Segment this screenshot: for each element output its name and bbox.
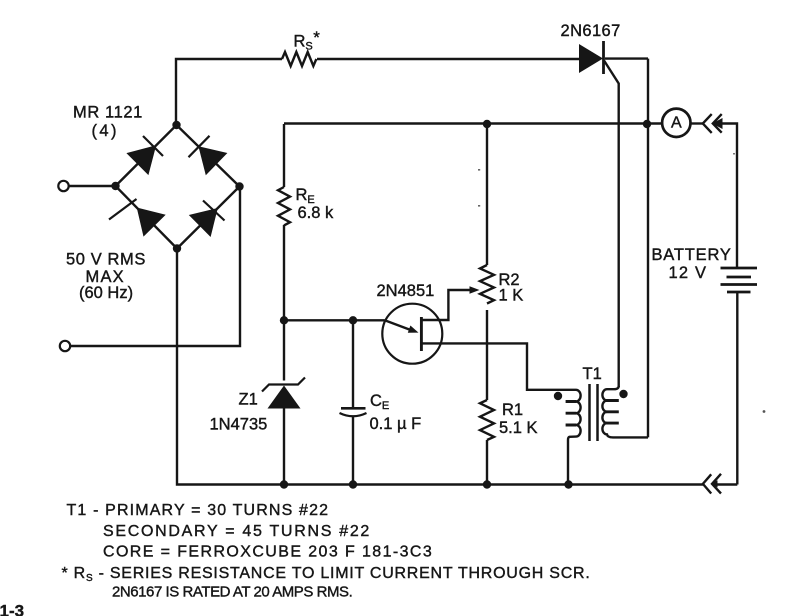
svg-text:1 K: 1 K	[499, 287, 524, 305]
svg-text:0.1 µ F: 0.1 µ F	[370, 415, 422, 433]
svg-text:BATTERY: BATTERY	[652, 246, 732, 264]
svg-text:1N4735: 1N4735	[210, 416, 268, 434]
svg-text:Z1: Z1	[239, 391, 258, 409]
svg-text:T1 - PRIMARY = 30 TURNS #22: T1 - PRIMARY = 30 TURNS #22	[67, 502, 330, 519]
svg-text:5.1 K: 5.1 K	[499, 419, 538, 437]
svg-text:12 V: 12 V	[669, 264, 708, 282]
svg-text:6.8 k: 6.8 k	[298, 204, 335, 222]
svg-text:CORE = FERROXCUBE 203 F 181-3C: CORE = FERROXCUBE 203 F 181-3C3	[103, 544, 433, 561]
svg-text:A: A	[671, 115, 682, 132]
svg-text:RS*: RS*	[294, 28, 321, 53]
svg-text:(4): (4)	[92, 122, 119, 140]
svg-text:T1: T1	[583, 365, 602, 383]
svg-text:(60 Hz): (60 Hz)	[79, 284, 133, 302]
svg-text:MR 1121: MR 1121	[73, 104, 143, 122]
svg-text:2N6167: 2N6167	[561, 22, 621, 40]
svg-text:* RS - SERIES RESISTANCE TO LI: * RS - SERIES RESISTANCE TO LIMIT CURREN…	[62, 565, 591, 584]
svg-text:CE: CE	[370, 392, 389, 412]
svg-text:RE: RE	[296, 186, 315, 206]
svg-text:R1: R1	[502, 401, 523, 419]
svg-text:2N4851: 2N4851	[377, 282, 435, 300]
svg-text:2N6167 IS RATED AT 20 AMPS RMS: 2N6167 IS RATED AT 20 AMPS RMS.	[112, 584, 352, 601]
svg-text:1-3: 1-3	[0, 602, 24, 616]
svg-text:50 V RMS: 50 V RMS	[66, 251, 146, 269]
svg-text:SECONDARY = 45 TURNS #22: SECONDARY = 45 TURNS #22	[103, 523, 371, 540]
